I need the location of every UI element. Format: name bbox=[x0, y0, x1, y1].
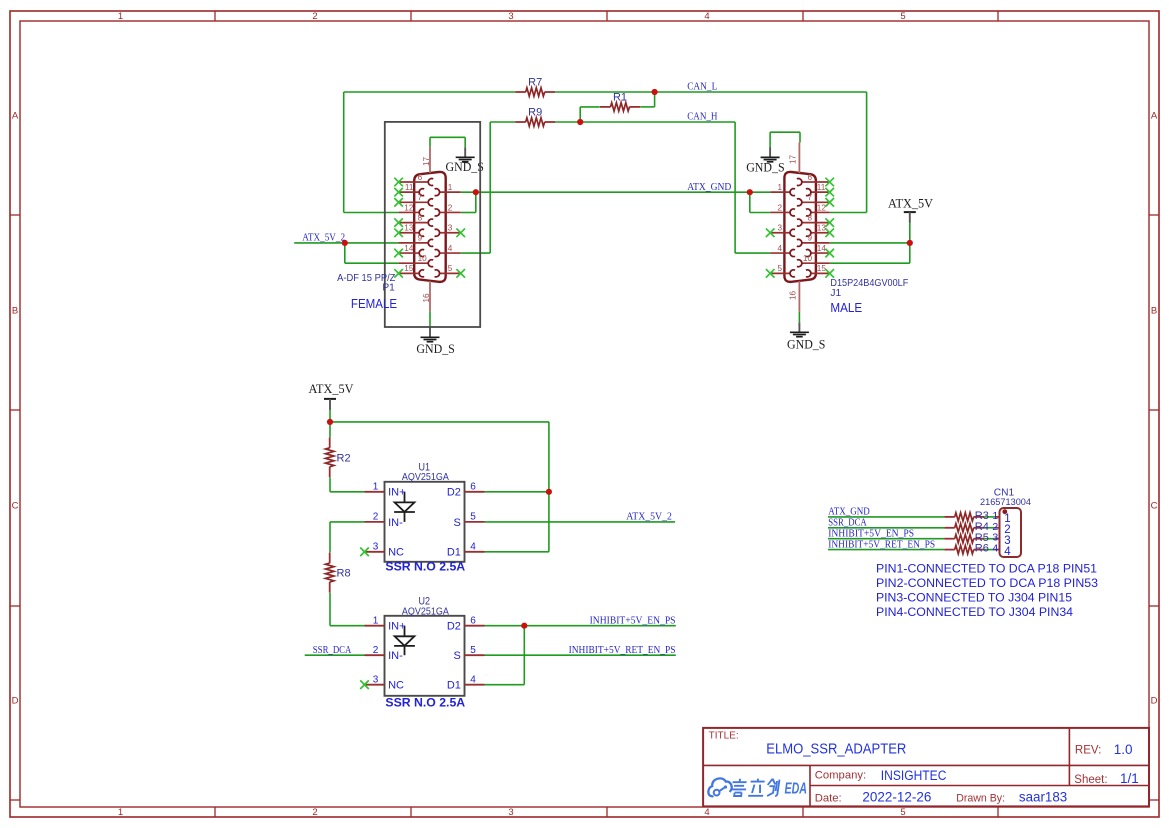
P1 pin 5 bbox=[435, 264, 461, 277]
svg-text:GND_S: GND_S bbox=[787, 337, 825, 351]
ground GND_S male top bbox=[746, 147, 784, 174]
wire ATX_5V_2 to P1 pin 9 bbox=[294, 242, 398, 244]
wire CAN_L to P1 pin 12 bbox=[344, 212, 399, 214]
svg-text:R8: R8 bbox=[337, 568, 351, 580]
svg-text:SSR_DCA: SSR_DCA bbox=[313, 645, 352, 656]
wire R1 right stub bbox=[640, 106, 655, 108]
P1 pin 13 bbox=[399, 224, 425, 237]
svg-text:FEMALE: FEMALE bbox=[351, 296, 397, 311]
svg-text:A: A bbox=[12, 111, 19, 122]
svg-text:10: 10 bbox=[418, 254, 428, 263]
svg-text:IN-: IN- bbox=[388, 650, 403, 662]
svg-text:2165713004: 2165713004 bbox=[980, 497, 1032, 508]
svg-text:4: 4 bbox=[704, 11, 709, 22]
svg-text:3: 3 bbox=[373, 541, 379, 552]
svg-text:1: 1 bbox=[448, 183, 453, 192]
resistor R6 bbox=[944, 543, 989, 555]
svg-text:PIN2-CONNECTED TO DCA P18 PIN5: PIN2-CONNECTED TO DCA P18 PIN53 bbox=[876, 576, 1098, 590]
wire P1 pin 17 to ground bbox=[430, 136, 465, 138]
P1 pin 11 bbox=[399, 183, 425, 196]
svg-text:NC: NC bbox=[388, 680, 404, 692]
junction U1 D2 bbox=[546, 489, 552, 495]
ground GND_S male bottom bbox=[787, 322, 825, 351]
svg-text:4: 4 bbox=[470, 541, 476, 552]
wire U1 D1 to junction bbox=[485, 551, 549, 553]
svg-text:D2: D2 bbox=[447, 621, 461, 633]
svg-text:12: 12 bbox=[817, 203, 827, 212]
svg-text:7: 7 bbox=[418, 193, 423, 202]
svg-text:Company:: Company: bbox=[815, 769, 867, 781]
svg-text:INSIGHTEC: INSIGHTEC bbox=[881, 768, 947, 783]
power flag ATX_5V (left) bbox=[309, 382, 354, 410]
U1 refdes label bbox=[419, 461, 431, 473]
svg-text:ATX_5V: ATX_5V bbox=[309, 382, 354, 396]
no-connect X P1 pin 11 bbox=[394, 188, 403, 197]
junction ATX_5V_2 female bbox=[342, 240, 348, 246]
svg-text:C: C bbox=[12, 501, 19, 512]
junction U2 D2 bbox=[521, 623, 527, 629]
svg-text:ATX_5V_2: ATX_5V_2 bbox=[626, 512, 672, 523]
svg-text:B: B bbox=[12, 306, 18, 317]
no-connect X P1 pin 8 bbox=[394, 218, 403, 227]
svg-text:IN-: IN- bbox=[388, 517, 403, 529]
wire P1 pin 17 up bbox=[429, 137, 431, 147]
FEMALE label bbox=[351, 296, 397, 311]
wire ATX_5V_2 from U1 S bbox=[485, 521, 676, 523]
svg-text:15: 15 bbox=[404, 264, 414, 273]
svg-text:17: 17 bbox=[788, 155, 797, 165]
svg-text:AQV251GA: AQV251GA bbox=[402, 471, 449, 483]
U2 part number AQV251GA bbox=[402, 605, 449, 617]
wire ATX_GND branch vertical at J1 bbox=[749, 192, 751, 212]
svg-text:SSR N.O 2.5A: SSR N.O 2.5A bbox=[385, 696, 465, 709]
svg-text:INHIBIT+5V_RET_EN_PS: INHIBIT+5V_RET_EN_PS bbox=[569, 645, 676, 656]
svg-text:INHIBIT+5V_EN_PS: INHIBIT+5V_EN_PS bbox=[590, 615, 676, 626]
svg-text:A: A bbox=[1151, 111, 1158, 122]
U2 refdes label bbox=[419, 596, 431, 608]
connector P1 outer box bbox=[385, 122, 480, 327]
no-connect X J1 pin 6 bbox=[825, 178, 834, 187]
svg-text:CAN_H: CAN_H bbox=[687, 112, 718, 123]
J1 pin 17 bbox=[788, 142, 799, 173]
svg-text:INHIBIT+5V_EN_PS: INHIBIT+5V_EN_PS bbox=[828, 529, 914, 540]
ground GND_S female top bbox=[446, 147, 484, 174]
no-connect X J1 pin 8 bbox=[825, 218, 834, 227]
wire U1 IN- left bbox=[330, 521, 365, 523]
svg-text:GND_S: GND_S bbox=[446, 160, 484, 174]
wire ATX_GND to J1 pin 2 bbox=[750, 212, 770, 214]
svg-text:5: 5 bbox=[777, 264, 782, 273]
U1 part number AQV251GA bbox=[402, 471, 449, 483]
svg-text:17: 17 bbox=[422, 157, 431, 167]
J1 pin 14 bbox=[806, 244, 830, 257]
wire R3 to CN1 pin 1 bbox=[984, 516, 995, 518]
svg-text:5: 5 bbox=[900, 11, 905, 22]
net label ATX_5V_2 (U1) bbox=[626, 512, 672, 523]
net label INHIBIT+5V_RET_EN_PS bbox=[569, 645, 676, 656]
resistor R9 bbox=[515, 107, 555, 127]
svg-text:ATX_5V: ATX_5V bbox=[888, 196, 933, 210]
net label ATX_5V_2 (female) bbox=[302, 233, 345, 244]
P1 pin 10 bbox=[399, 254, 434, 267]
wire into U2 pin 1 bbox=[330, 625, 365, 627]
svg-text:GND_S: GND_S bbox=[746, 160, 784, 174]
svg-text:GND_S: GND_S bbox=[416, 342, 454, 356]
svg-text:13: 13 bbox=[404, 224, 414, 233]
svg-text:3: 3 bbox=[777, 224, 782, 233]
svg-text:R7: R7 bbox=[528, 77, 542, 89]
junction ATX_GND female bbox=[473, 189, 479, 195]
wire ATX_5V stem right bbox=[909, 223, 911, 264]
resistor R7 bbox=[515, 77, 555, 97]
wire ATX_GND branch vertical at P1 bbox=[475, 192, 477, 212]
wire J1 pin 17 up bbox=[799, 132, 801, 142]
J1 pin 10 bbox=[797, 254, 830, 267]
P1 pin 8 bbox=[399, 213, 434, 226]
J1 pin 6 bbox=[797, 173, 830, 186]
P1 pin 4 bbox=[435, 244, 461, 257]
J1 refdes label bbox=[830, 288, 841, 299]
svg-text:16: 16 bbox=[422, 293, 431, 303]
J1 pin 13 bbox=[806, 224, 830, 237]
svg-text:2: 2 bbox=[312, 11, 317, 22]
wire CAN_H vertical to J1 pin 4 bbox=[734, 122, 736, 253]
wire CAN_L vertical to P1 pin 12 bbox=[343, 92, 345, 213]
J1 pin 3 bbox=[770, 224, 795, 237]
svg-text:1.0: 1.0 bbox=[1114, 742, 1133, 757]
svg-text:13: 13 bbox=[817, 224, 827, 233]
wire U1 IN- down to R8 bbox=[329, 522, 331, 553]
wire R6 to CN1 pin 4 bbox=[984, 549, 995, 551]
junction CAN_H/R1 bbox=[577, 119, 583, 125]
J1 pin 4 bbox=[770, 244, 795, 257]
resistor R3 bbox=[944, 510, 989, 522]
junction ATX_5V/R2 bbox=[327, 419, 333, 425]
svg-text:2: 2 bbox=[448, 203, 453, 212]
svg-text:Date:: Date: bbox=[815, 792, 842, 804]
svg-text:3: 3 bbox=[373, 674, 379, 685]
svg-text:6: 6 bbox=[418, 173, 423, 182]
junction ATX_5V male bbox=[907, 240, 913, 246]
P1 pin 1 bbox=[435, 183, 461, 196]
P1 pin 3 bbox=[435, 224, 461, 237]
svg-text:D15P24B4GV00LF: D15P24B4GV00LF bbox=[830, 278, 908, 289]
svg-text:5: 5 bbox=[448, 264, 453, 273]
no-connect X J1 pin 3 bbox=[766, 228, 775, 237]
svg-text:B: B bbox=[1151, 306, 1157, 317]
connector CN1 2165713004 bbox=[992, 508, 1021, 558]
P1 refdes label bbox=[382, 283, 395, 294]
net label SSR_DCA (CN1) bbox=[828, 518, 867, 529]
wire J1 pin 17 to ground bbox=[770, 131, 800, 133]
svg-text:2: 2 bbox=[373, 512, 379, 523]
svg-text:INHIBIT+5V_RET_EN_PS: INHIBIT+5V_RET_EN_PS bbox=[828, 539, 935, 550]
svg-text:1: 1 bbox=[373, 615, 379, 626]
J1 pin 12 bbox=[806, 203, 830, 216]
no-connect X P1 pin 7 bbox=[394, 198, 403, 207]
no-connect X J1 pin 7 bbox=[825, 198, 834, 207]
svg-text:AQV251GA: AQV251GA bbox=[402, 605, 449, 617]
svg-text:1: 1 bbox=[777, 183, 782, 192]
svg-text:14: 14 bbox=[817, 244, 827, 253]
svg-text:S: S bbox=[454, 650, 461, 662]
P1 pin 12 bbox=[399, 203, 425, 216]
wire CAN_H left of R9 bbox=[490, 121, 515, 123]
wire ATX_GND to P1 pin 2 bbox=[461, 212, 476, 214]
svg-text:SSR_DCA: SSR_DCA bbox=[828, 518, 867, 529]
wire R8 down to U2 bbox=[329, 593, 331, 626]
wire CAN_H to J1 pin 4 bbox=[735, 252, 770, 254]
wire R2 to U1 IN+ bbox=[329, 477, 331, 491]
svg-text:D1: D1 bbox=[447, 547, 461, 559]
no-connect X P1 pin 6 bbox=[394, 178, 403, 187]
svg-text:P1: P1 bbox=[382, 283, 395, 294]
U2 value label SSR N.O 2.5A bbox=[385, 696, 465, 709]
svg-text:10: 10 bbox=[803, 254, 813, 263]
svg-text:Drawn By:: Drawn By: bbox=[956, 792, 1005, 804]
opto-relay U1 (body, pins, diode) bbox=[365, 481, 485, 561]
svg-text:R2: R2 bbox=[337, 452, 351, 464]
P1 pin 17 bbox=[422, 147, 431, 173]
svg-text:3: 3 bbox=[508, 11, 513, 22]
wire CAN_L vertical to J1 pin 12 bbox=[866, 92, 868, 213]
wire SSR_DCA to R4 bbox=[828, 527, 944, 529]
J1 pin 11 bbox=[806, 183, 830, 196]
wire CAN_H right of R9 bbox=[555, 121, 735, 123]
svg-text:8: 8 bbox=[418, 213, 423, 222]
ground GND_S female bottom bbox=[416, 327, 454, 356]
no-connect X P1 pin 15 bbox=[394, 269, 403, 278]
svg-text:ELMO_SSR_ADAPTER: ELMO_SSR_ADAPTER bbox=[766, 741, 906, 757]
wire ground drop male top bbox=[769, 132, 771, 147]
J1 pin 2 bbox=[770, 203, 795, 216]
wire SSR_DCA to U2 IN- bbox=[305, 654, 365, 656]
wire ATX_5V horizontal to U1 bbox=[330, 421, 549, 423]
svg-text:3: 3 bbox=[508, 807, 513, 818]
MALE label bbox=[830, 300, 862, 315]
net label ATX_GND (CN1) bbox=[828, 507, 870, 518]
title block bbox=[703, 728, 1149, 807]
svg-text:11: 11 bbox=[405, 183, 414, 192]
svg-text:1: 1 bbox=[118, 807, 123, 818]
wire ATX_5V to J1 pin 9 bbox=[830, 242, 910, 244]
svg-text:PIN4-CONNECTED TO J304 PIN34: PIN4-CONNECTED TO J304 PIN34 bbox=[876, 605, 1073, 619]
CN1 connection notes bbox=[876, 562, 1098, 619]
svg-text:15: 15 bbox=[817, 264, 827, 273]
svg-text:5: 5 bbox=[470, 645, 476, 656]
svg-text:TITLE:: TITLE: bbox=[709, 730, 739, 741]
no-connect X P1 pin 13 bbox=[394, 228, 403, 237]
svg-text:12: 12 bbox=[404, 203, 414, 212]
svg-text:2: 2 bbox=[777, 203, 782, 212]
wire R4 to CN1 pin 2 bbox=[984, 527, 995, 529]
svg-text:IN+: IN+ bbox=[388, 621, 405, 633]
J1 pin 1 bbox=[770, 183, 795, 196]
svg-text:2022-12-26: 2022-12-26 bbox=[862, 790, 931, 805]
svg-text:C: C bbox=[1151, 501, 1158, 512]
svg-text:D: D bbox=[1151, 696, 1158, 707]
wire J1 pin 16 to ground bbox=[798, 312, 800, 323]
net label INHIBIT+5V_RET_EN_PS (CN1) bbox=[828, 539, 935, 550]
svg-text:SSR N.O 2.5A: SSR N.O 2.5A bbox=[385, 561, 465, 574]
wire ATX_5V stem left bbox=[329, 410, 331, 438]
J1 pin 5 bbox=[770, 264, 795, 277]
wire ATX_5V vertical at U1 right bbox=[548, 422, 550, 552]
wire INHIBIT+5V_EN_PS from U2 D2 bbox=[485, 625, 676, 627]
svg-text:1/1: 1/1 bbox=[1120, 771, 1139, 786]
resistor R4 bbox=[944, 521, 989, 533]
wire CAN_L horizontal right of R7 bbox=[555, 91, 866, 93]
resistor R2 bbox=[326, 437, 351, 477]
svg-text:5: 5 bbox=[470, 512, 476, 523]
wire U2 D2/D1 vertical bbox=[523, 626, 525, 685]
svg-text:S: S bbox=[454, 517, 461, 529]
connector J1 body (DB15 male shell) bbox=[784, 172, 816, 282]
svg-text:1: 1 bbox=[118, 11, 123, 22]
wire U1 D2 to junction bbox=[485, 491, 549, 493]
wire ATX_5V_2 branch vertical bbox=[344, 243, 346, 263]
svg-text:4: 4 bbox=[992, 543, 998, 555]
svg-text:R6: R6 bbox=[975, 543, 989, 555]
wire ATX_GND to R3 bbox=[828, 516, 944, 518]
CN1 refdes label bbox=[994, 487, 1015, 498]
P1 pin 6 bbox=[399, 173, 434, 186]
svg-text:MALE: MALE bbox=[830, 300, 862, 315]
J1 pin 7 bbox=[797, 193, 830, 206]
svg-text:9: 9 bbox=[807, 234, 812, 243]
J1 pin 9 bbox=[797, 234, 830, 247]
no-connect X J1 pin 5 bbox=[766, 269, 775, 278]
svg-text:7: 7 bbox=[807, 193, 812, 202]
junction ATX_GND male bbox=[747, 189, 753, 195]
svg-text:4: 4 bbox=[448, 244, 453, 253]
svg-text:D1: D1 bbox=[447, 680, 461, 692]
P1 pin 14 bbox=[399, 244, 425, 257]
P1 pin 16 bbox=[422, 281, 431, 312]
svg-text:PIN3-CONNECTED TO J304 PIN15: PIN3-CONNECTED TO J304 PIN15 bbox=[876, 591, 1072, 605]
wire R1 left stub bbox=[580, 106, 600, 108]
net label ATX_GND bbox=[687, 182, 732, 193]
JLC EDA logo bbox=[708, 778, 807, 797]
wire INHIBIT+5V_RET_EN_PS to R6 bbox=[828, 549, 944, 551]
svg-text:16: 16 bbox=[788, 291, 797, 301]
no-connect X U1 pin 3 bbox=[360, 548, 369, 557]
svg-text:9: 9 bbox=[418, 234, 423, 243]
wire R1 left vertical bbox=[579, 107, 581, 122]
CN1 part number 2165713004 bbox=[980, 497, 1032, 508]
no-connect X J1 pin 11 bbox=[825, 188, 834, 197]
svg-text:4: 4 bbox=[1004, 546, 1011, 558]
svg-text:REV:: REV: bbox=[1075, 744, 1101, 756]
svg-text:D: D bbox=[12, 696, 19, 707]
svg-text:CAN_L: CAN_L bbox=[687, 82, 717, 93]
wire ATX_5V_2 to P1 pin 10 bbox=[345, 262, 399, 264]
wire U2 D1 to junction bbox=[485, 684, 525, 686]
wire P1 pin 16 to ground bbox=[429, 312, 431, 327]
svg-text:ATX_GND: ATX_GND bbox=[687, 182, 732, 193]
P1 pin 2 bbox=[435, 203, 461, 216]
no-connect X P1 pin 3 bbox=[456, 228, 465, 237]
wire ATX_5V to J1 pin 10 bbox=[830, 262, 910, 264]
svg-text:6: 6 bbox=[807, 173, 812, 182]
J1 pin 15 bbox=[806, 264, 830, 277]
no-connect X P1 pin 5 bbox=[456, 269, 465, 278]
svg-text:Sheet:: Sheet: bbox=[1074, 774, 1107, 786]
P1 pin 9 bbox=[399, 234, 434, 247]
svg-text:1: 1 bbox=[373, 481, 379, 492]
wire CAN_H vertical to P1 pin 4 bbox=[489, 122, 491, 253]
svg-text:3: 3 bbox=[448, 224, 453, 233]
wire ATX_GND horizontal bbox=[461, 191, 771, 193]
wire CAN_H to P1 pin 4 bbox=[461, 252, 491, 254]
no-connect X P1 pin 14 bbox=[394, 249, 403, 258]
wire ground drop female top bbox=[464, 137, 466, 147]
svg-text:EDA: EDA bbox=[785, 780, 808, 797]
wire INHIBIT+5V_EN_PS to R5 bbox=[828, 538, 944, 540]
net label SSR_DCA bbox=[313, 645, 352, 656]
svg-text:5: 5 bbox=[900, 807, 905, 818]
J1 pin 8 bbox=[797, 213, 830, 226]
net label CAN_H bbox=[687, 112, 718, 123]
no-connect X J1 pin 15 bbox=[825, 269, 834, 278]
svg-text:D2: D2 bbox=[447, 487, 461, 499]
P1 pin 15 bbox=[399, 264, 425, 277]
connector P1 body (DB15 female shell) bbox=[414, 172, 446, 282]
net label INHIBIT+5V_EN_PS bbox=[590, 615, 676, 626]
svg-text:6: 6 bbox=[470, 481, 476, 492]
svg-text:4: 4 bbox=[777, 244, 782, 253]
no-connect X J1 pin 13 bbox=[825, 228, 834, 237]
wire R1 right vertical bbox=[654, 92, 656, 107]
resistor R5 bbox=[944, 532, 989, 544]
P1 pin 7 bbox=[399, 193, 434, 206]
svg-text:R1: R1 bbox=[613, 92, 627, 104]
no-connect X U2 pin 3 bbox=[360, 680, 369, 689]
P1 part number label bbox=[337, 273, 395, 284]
svg-text:4: 4 bbox=[704, 807, 709, 818]
J1 part number label bbox=[830, 278, 908, 289]
wire R5 to CN1 pin 3 bbox=[984, 538, 995, 540]
svg-text:2: 2 bbox=[373, 645, 379, 656]
svg-text:6: 6 bbox=[470, 615, 476, 626]
net label CAN_L bbox=[687, 82, 717, 93]
svg-text:R9: R9 bbox=[528, 107, 542, 119]
power flag ATX_5V (right) bbox=[888, 196, 933, 222]
svg-text:11: 11 bbox=[817, 183, 826, 192]
resistor R1 bbox=[600, 92, 640, 112]
wire into U1 pin 1 bbox=[330, 491, 365, 493]
svg-text:NC: NC bbox=[388, 547, 404, 559]
svg-text:saar183: saar183 bbox=[1019, 790, 1068, 805]
svg-text:8: 8 bbox=[807, 213, 812, 222]
junction CAN_L/R1 bbox=[652, 89, 658, 95]
svg-text:IN+: IN+ bbox=[388, 487, 405, 499]
svg-text:4: 4 bbox=[470, 674, 476, 685]
svg-text:PIN1-CONNECTED TO DCA P18 PIN5: PIN1-CONNECTED TO DCA P18 PIN51 bbox=[876, 562, 1097, 576]
J1 pin 16 bbox=[788, 281, 799, 312]
svg-text:ATX_GND: ATX_GND bbox=[828, 507, 870, 518]
opto-relay U2 (body, pins, diode) bbox=[365, 615, 485, 696]
no-connect X J1 pin 14 bbox=[825, 249, 834, 258]
wire INHIBIT+5V_RET_EN_PS from U2 S bbox=[485, 654, 676, 656]
svg-text:ATX_5V_2: ATX_5V_2 bbox=[302, 233, 345, 244]
wire CAN_L horizontal top bbox=[344, 91, 516, 93]
net label INHIBIT+5V_EN_PS (CN1) bbox=[828, 529, 914, 540]
resistor R8 bbox=[326, 553, 351, 593]
svg-text:14: 14 bbox=[404, 244, 414, 253]
svg-text:J1: J1 bbox=[830, 288, 841, 299]
svg-text:2: 2 bbox=[312, 807, 317, 818]
